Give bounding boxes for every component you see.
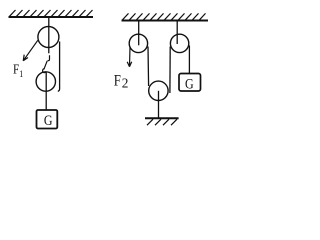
force F2 arrow: [127, 47, 132, 67]
link rope between hooks: [44, 61, 47, 70]
right ceiling hatching: [123, 13, 206, 19]
force F1 arrow: [23, 40, 38, 61]
hook under pulley P1: [48, 55, 50, 60]
ground hatching: [147, 119, 177, 125]
support rod of fixed pulley P1: [48, 18, 50, 53]
fixed pulley P4: [170, 34, 188, 52]
lower pulley P5: [149, 81, 168, 100]
support rod of fixed pulley P3: [138, 22, 140, 46]
anchor line P5 to ground: [158, 91, 160, 118]
axle line of P2 down to weight: [45, 72, 47, 111]
fixed pulley P1: [38, 27, 59, 48]
left ceiling hatching: [10, 10, 93, 16]
rope P3 to P5: [147, 47, 150, 87]
rope P4 to P5: [169, 47, 171, 94]
right rope over P1: [58, 42, 60, 92]
svg-text:1: 1: [19, 69, 23, 80]
movable pulley P2: [36, 72, 55, 91]
left ceiling line: [9, 16, 94, 18]
weight box G2: [179, 74, 201, 92]
hook on pulley P2: [43, 69, 46, 73]
svg-text:F: F: [114, 72, 121, 90]
rope P4 to weight G2: [188, 46, 190, 74]
svg-text:F: F: [13, 62, 19, 77]
support rod of fixed pulley P4: [176, 22, 178, 45]
svg-text:G: G: [185, 75, 194, 92]
svg-text:G: G: [44, 112, 53, 129]
fixed pulley P3: [129, 34, 147, 52]
svg-text:2: 2: [122, 75, 129, 90]
right ceiling line: [122, 20, 209, 22]
ground line: [145, 117, 179, 119]
weight box G1: [37, 110, 58, 129]
